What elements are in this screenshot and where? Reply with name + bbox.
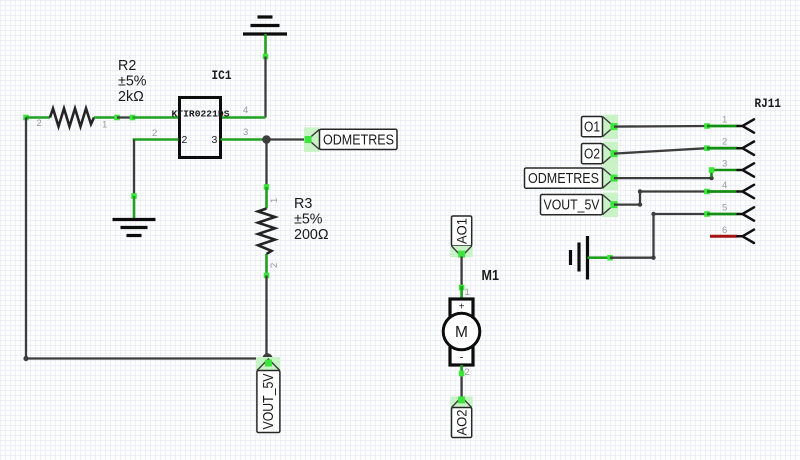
node: GND1 stem endpoint	[263, 54, 269, 60]
svg-text:KTIR0221DS: KTIR0221DS	[172, 109, 230, 120]
svg-text:+: +	[459, 302, 465, 313]
svg-text:6: 6	[722, 225, 727, 236]
svg-text:VOUT_5V: VOUT_5V	[544, 197, 600, 214]
svg-text:ODMETRES: ODMETRES	[528, 170, 599, 187]
connector RJ11 pin 1	[704, 115, 754, 133]
wire: junction to ODMETRES flag	[267, 138, 308, 140]
wire: AO1 to M1 pin1 (dark)	[460, 257, 462, 287]
wire: junction down to R3 (dark)	[265, 140, 267, 188]
svg-text:2: 2	[722, 137, 727, 148]
wire: M1 pin2 lead (green)	[460, 365, 463, 377]
node: left end of R2 net	[23, 115, 29, 121]
node: GND3 stub endpoint	[607, 255, 613, 261]
node: wire endpoint at 132.5	[130, 115, 136, 121]
svg-text:2: 2	[182, 134, 188, 146]
net label O2	[582, 142, 619, 167]
wire: GND2 stem (green)	[133, 196, 136, 220]
wire: IC1 pin3 lead (green)	[221, 138, 267, 141]
net label AO2 (vertical)	[451, 396, 473, 437]
wire: R3 pin1 lead (green)	[265, 187, 268, 209]
svg-text:O1: O1	[584, 119, 600, 136]
svg-text:1: 1	[722, 115, 727, 126]
connector RJ11 pin 5	[704, 203, 754, 221]
svg-text:2kΩ: 2kΩ	[118, 89, 144, 105]
svg-text:2: 2	[269, 263, 280, 268]
wire: VOUT_5V to RJ11 pin4	[614, 192, 707, 205]
wire: pin2 down to ground (dark)	[133, 140, 135, 197]
svg-text:R3: R3	[294, 196, 312, 212]
connector RJ11 pin 3	[722, 159, 754, 177]
svg-text:1: 1	[102, 120, 107, 131]
ground GND1 (top, inverted earth symbol)	[243, 17, 287, 34]
svg-text:±5%: ±5%	[118, 74, 147, 90]
svg-text:VOUT_5V: VOUT_5V	[260, 374, 277, 430]
svg-text:5: 5	[722, 203, 727, 214]
svg-text:3: 3	[212, 134, 218, 146]
wire: M1 to AO2 (dark)	[460, 377, 462, 397]
resistor R3	[258, 209, 275, 255]
node: pin3 corner	[709, 167, 715, 173]
net label O1	[582, 115, 619, 140]
wire: ODMETRES to RJ11 pin3	[614, 176, 712, 178]
wire: R2 to IC1 (dark middle segment)	[117, 116, 133, 118]
wire: O1 to RJ11 pin1	[614, 125, 707, 128]
wire: IC1 pin2 lead (green)	[134, 140, 179, 142]
wire: left node to R2 pin 2 (green)	[26, 116, 50, 119]
net label VOUT_5V (bottom, vertical)	[256, 357, 280, 433]
net label ODMETRES (left)	[304, 127, 397, 151]
op-amp/IC IC1 body	[180, 98, 221, 158]
junction: VOUT_5V node	[262, 353, 272, 363]
junction: bend dots pin5 wire	[651, 256, 655, 260]
junction: bend dot pin3 wire	[709, 176, 713, 180]
svg-text:AO2: AO2	[454, 410, 469, 436]
node: R3 pin1 endpoint	[264, 184, 270, 190]
net label ODMETRES (right)	[525, 166, 619, 191]
wire: VOUT_5V net left vertical	[26, 118, 268, 359]
wire: O2 to RJ11 pin2	[614, 148, 707, 153]
svg-text:M1: M1	[482, 268, 500, 284]
svg-text:3: 3	[243, 127, 248, 138]
node: M1 pin2 endpoint	[459, 371, 465, 377]
net label AO1 (vertical)	[451, 216, 473, 258]
wire: R2 pin1 lead (green)	[94, 116, 117, 119]
svg-text:3: 3	[722, 159, 727, 170]
wire: ODMETRES pin3 riser (green)	[712, 170, 738, 177]
svg-text:RJ11: RJ11	[755, 96, 782, 111]
connector RJ11 pin 6 (unrouted, red)	[710, 225, 754, 243]
wire: M1 pin1 lead (green)	[460, 286, 463, 299]
wire: R3 down to VOUT junction	[265, 276, 267, 359]
net label VOUT_5V (right)	[541, 193, 619, 218]
junction: bend dots pin4 wire	[638, 202, 642, 206]
svg-text:±5%: ±5%	[294, 212, 323, 228]
svg-text:1: 1	[465, 287, 470, 298]
wire: GND1 down to IC1 pin4	[264, 57, 266, 118]
connector RJ11 pin 2	[704, 137, 754, 155]
svg-text:IC1: IC1	[212, 68, 232, 83]
svg-text:M: M	[455, 324, 468, 341]
svg-text:2: 2	[37, 118, 42, 129]
ground GND3 (rotated earth, left-pointing)	[571, 236, 588, 280]
svg-text:AO1: AO1	[454, 218, 469, 244]
node: wire endpoint above GND2	[131, 193, 137, 199]
svg-text:O2: O2	[584, 146, 600, 163]
svg-text:2: 2	[152, 128, 157, 139]
node: M1 pin1 endpoint	[459, 285, 465, 291]
svg-text:200Ω: 200Ω	[294, 227, 329, 243]
wire: IC1 pin4 lead (green)	[222, 116, 266, 119]
resistor R2	[50, 109, 94, 127]
svg-text:2: 2	[465, 367, 470, 378]
motor M1 body	[443, 299, 480, 365]
connector RJ11 pin 4	[704, 180, 754, 198]
ground GND2 (earth)	[113, 220, 156, 236]
svg-text:-: -	[460, 352, 464, 364]
svg-text:1: 1	[269, 198, 280, 203]
junction: pin3 node	[262, 135, 271, 144]
svg-text:4: 4	[243, 105, 248, 116]
wire: GND3 stub (green)	[588, 256, 611, 259]
svg-text:ODMETRES: ODMETRES	[323, 131, 394, 148]
wire: R3 pin2 lead (green)	[265, 254, 268, 276]
junction: corner dot bottom-left	[23, 356, 28, 361]
wire: GND3 to RJ11 pin5	[610, 214, 707, 258]
node: R2 pin1 endpoint	[114, 115, 120, 121]
wire: to IC1 pin1 (green)	[133, 116, 179, 119]
svg-text:R2: R2	[118, 58, 136, 74]
node: R3 pin2 endpoint	[264, 273, 270, 279]
svg-text:4: 4	[722, 180, 727, 191]
wire: GND1 stem (green segment)	[264, 34, 267, 57]
